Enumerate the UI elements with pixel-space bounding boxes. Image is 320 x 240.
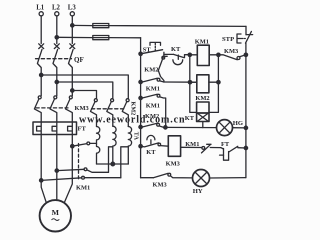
KM1 linkage dashed xyxy=(78,144,80,181)
wire fuse FU1 to right rail xyxy=(109,25,246,28)
QF X-mark pole1 xyxy=(39,44,44,49)
node row1 right of KM1 coil xyxy=(217,53,220,56)
svg-text:KM3: KM3 xyxy=(224,48,238,55)
terminal L1 xyxy=(36,5,45,16)
autotransformer TA winding 2 xyxy=(113,126,116,164)
wire KM3 coil to KM1 NC xyxy=(181,146,202,148)
svg-text:KM1: KM1 xyxy=(185,141,199,148)
node ST right terminal xyxy=(163,52,165,56)
svg-text:KM2: KM2 xyxy=(145,113,159,120)
node A tap xyxy=(40,179,43,182)
TA winding1 tap stub xyxy=(90,142,97,144)
wire KM1 coil to node xyxy=(209,54,218,56)
wire branch C to KM2 pole1 xyxy=(72,91,96,99)
svg-text:L1: L1 xyxy=(36,5,45,12)
svg-text:KM3: KM3 xyxy=(153,182,167,189)
svg-text:STP: STP xyxy=(222,36,234,43)
terminal L3 xyxy=(68,5,77,16)
svg-text:KT: KT xyxy=(185,115,195,122)
row5 bottom: wire rail corner xyxy=(141,177,154,179)
contact KM3 NO row5 xyxy=(153,173,193,188)
wire row2 to KM2 coil xyxy=(164,81,197,83)
autotransformer TA winding 3 xyxy=(128,127,131,165)
label KM1 main xyxy=(76,185,90,192)
label FT main xyxy=(78,126,87,133)
wire to fuse FU1 xyxy=(72,24,93,26)
label QF xyxy=(74,56,84,64)
contactor KM1 tap contact A xyxy=(41,176,121,180)
time relay KT delayed contact row4 xyxy=(141,135,169,155)
svg-text:KM1: KM1 xyxy=(146,102,160,109)
row4: node rail xyxy=(139,145,142,148)
wire L3 down xyxy=(71,16,73,44)
svg-text:KT: KT xyxy=(171,46,181,53)
contactor KM3 main pole2 xyxy=(50,96,57,122)
node L3-fuse1 xyxy=(71,24,74,27)
TA winding2 tap stub xyxy=(109,147,113,173)
node row KM2 coil right xyxy=(217,81,220,84)
wire to fuse FU2 xyxy=(57,36,93,38)
contactor KM2 main pole3 xyxy=(122,99,129,127)
svg-text:www.eeworld.com.cn: www.eeworld.com.cn xyxy=(79,115,185,126)
right control rail (top) xyxy=(245,26,247,34)
lamp HY xyxy=(193,170,210,196)
contactor KM1 tap contact B xyxy=(57,168,109,172)
FT heater element 2 xyxy=(52,126,56,131)
FT heater element 3 xyxy=(68,126,72,131)
svg-text:KT: KT xyxy=(146,149,156,156)
contactor KM1 tap contact C xyxy=(72,142,89,146)
wire B down to KM3 bank xyxy=(56,82,58,96)
contact KM1 NO row3 xyxy=(141,94,166,127)
TA star bus xyxy=(97,163,129,165)
node C after QF xyxy=(71,89,74,92)
contactor KM3 main pole1 xyxy=(34,96,41,122)
wire to HG lamp xyxy=(165,126,216,128)
QF X-mark pole3 xyxy=(70,44,75,49)
node B tap xyxy=(55,169,58,172)
svg-text:HY: HY xyxy=(193,188,203,195)
contactor coil KM3 xyxy=(166,136,181,168)
wire L1 down xyxy=(40,16,42,44)
svg-text:L3: L3 xyxy=(68,5,77,12)
breaker QF pole1 xyxy=(37,49,42,75)
terminal L2 xyxy=(52,5,61,16)
thermal relay FT box xyxy=(33,122,77,135)
time relay KT delayed contact row1 xyxy=(171,46,190,65)
row2: node rail xyxy=(139,80,142,83)
wire A down to KM3 bank xyxy=(40,75,42,96)
svg-text:QF: QF xyxy=(74,56,84,64)
contactor KM2 main pole1 xyxy=(91,99,98,127)
TA star node xyxy=(111,162,115,166)
row1: node rail-ST xyxy=(139,52,142,55)
node lamp row left xyxy=(164,126,167,129)
wire branch B to KM2 pole2 xyxy=(57,82,113,99)
KM3 main linkage dashed xyxy=(36,107,68,109)
svg-text:KM3: KM3 xyxy=(75,105,89,112)
contactor coil KM1 xyxy=(195,39,209,66)
node row1 rail xyxy=(244,53,247,56)
svg-text:M: M xyxy=(52,208,60,217)
QF X-mark pole2 xyxy=(54,44,59,49)
start button ST xyxy=(141,42,163,53)
node row2 at left vertical xyxy=(188,81,191,84)
motor M xyxy=(40,200,71,231)
time relay KT coil xyxy=(185,102,209,122)
wire B: FT to motor xyxy=(56,135,58,201)
autotransformer TA winding 1 xyxy=(97,127,100,165)
svg-text:FT: FT xyxy=(221,141,230,148)
wire A: FT to motor xyxy=(41,135,46,203)
row3: node rail xyxy=(139,96,142,99)
row HG: node rail xyxy=(139,125,142,128)
right control rail (lower) xyxy=(245,43,247,177)
contact KM1 NC row4 xyxy=(185,141,221,153)
label TA vertical xyxy=(133,132,140,141)
node B after QF xyxy=(55,80,58,83)
wire row1 to KT xyxy=(164,53,174,55)
contactor KM3 main pole3 xyxy=(66,96,73,122)
label KM2 main vertical xyxy=(129,102,136,116)
svg-text:KM3: KM3 xyxy=(166,160,180,167)
wires through FT xyxy=(41,122,72,135)
svg-text:L2: L2 xyxy=(52,5,61,12)
fuse FU2 xyxy=(93,36,109,40)
TA winding3 tap stub xyxy=(121,147,129,178)
contact KM2 NC vertical xyxy=(144,56,167,82)
wire branch A to KM2 pole3 xyxy=(41,75,128,99)
node row1 left of KM1 coil xyxy=(188,53,191,56)
contact KM3 NO row1 xyxy=(218,48,246,60)
contactor KM2 main pole2 xyxy=(107,99,114,127)
wire C: FT to motor xyxy=(64,135,72,203)
wire KT coil to HG row xyxy=(202,122,204,128)
contact KM2 NO lamp row xyxy=(141,113,164,127)
svg-text:KM1: KM1 xyxy=(195,39,209,46)
node L2-fuse2 xyxy=(55,36,58,39)
contact KM1 NO row2 self-holding xyxy=(141,78,164,92)
FT heater element 1 xyxy=(37,126,41,131)
wire L2 down xyxy=(56,16,58,44)
watermark xyxy=(79,115,185,126)
svg-text:KM2: KM2 xyxy=(144,66,158,73)
KM2 main linkage dashed xyxy=(92,108,125,110)
wire fuse FU2 to left control rail xyxy=(109,37,141,39)
svg-text:HG: HG xyxy=(233,120,243,127)
wire C down to KM3 bank xyxy=(71,91,73,96)
svg-text:KM2: KM2 xyxy=(195,95,209,102)
left control rail xyxy=(140,38,142,178)
label KM3 main xyxy=(75,105,89,112)
breaker QF pole2 xyxy=(53,49,58,82)
stop button STP xyxy=(222,31,253,43)
svg-text:ST: ST xyxy=(143,47,152,54)
contactor coil KM2 xyxy=(190,75,218,102)
svg-text:KM1: KM1 xyxy=(76,185,90,192)
wire HY to rail corner xyxy=(210,177,246,179)
svg-text:KM2: KM2 xyxy=(129,102,136,116)
node FT rail xyxy=(244,146,247,149)
fuse FU1 xyxy=(93,24,109,28)
svg-text:KM1: KM1 xyxy=(146,85,160,92)
wire HG lamp to rail xyxy=(233,127,246,129)
left vertical wire 190 xyxy=(190,55,197,113)
breaker QF pole3 xyxy=(69,49,74,90)
QF linkage dashed xyxy=(36,58,72,60)
wire to KM1 coil xyxy=(190,54,198,56)
node C tap xyxy=(71,145,74,148)
svg-text:FT: FT xyxy=(78,126,87,133)
lamp HG xyxy=(217,120,244,136)
node A after QF xyxy=(40,73,43,76)
contact FT NC thermal row4 xyxy=(220,141,246,160)
svg-text:TA: TA xyxy=(133,132,140,141)
node HG rail xyxy=(244,126,247,129)
right vertical wire 218.5 xyxy=(209,55,218,113)
